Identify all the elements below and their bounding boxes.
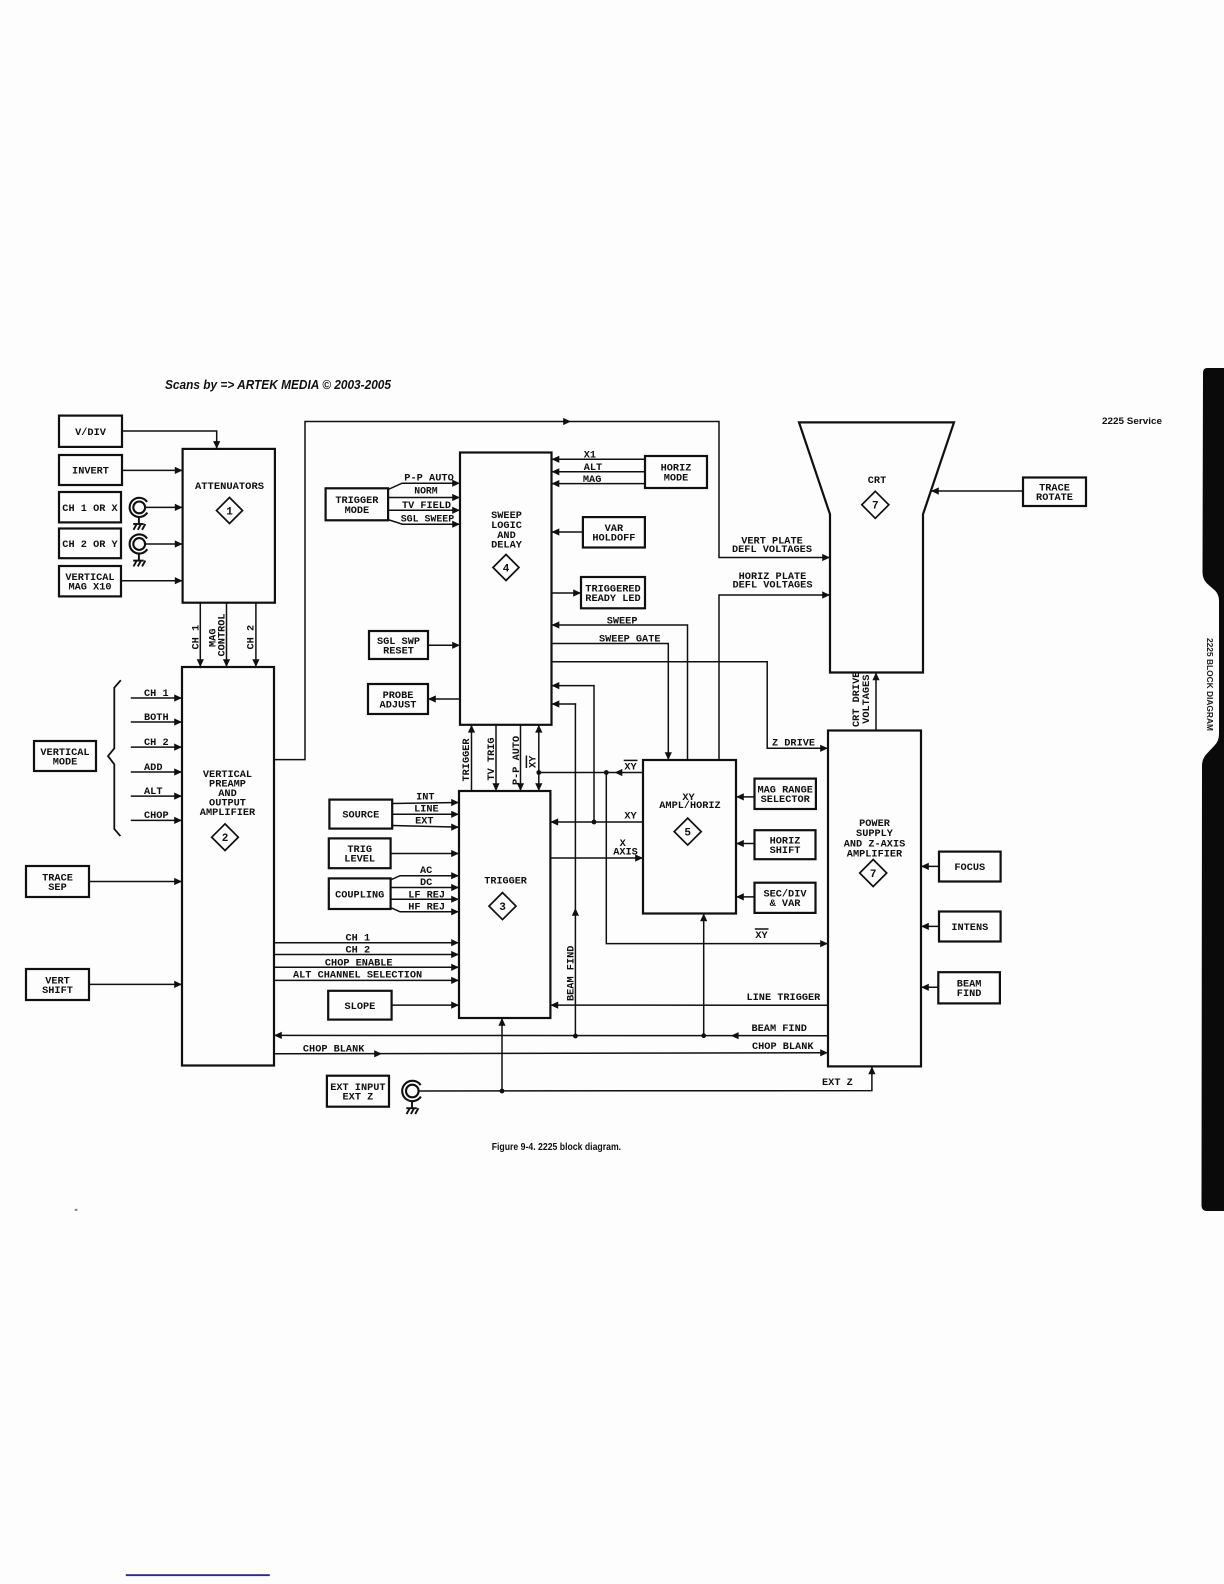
arrowhead CH 2 right bbox=[175, 540, 183, 547]
block VERTICAL MAG X10 control bbox=[59, 566, 121, 596]
svg-text:SLOPE: SLOPE bbox=[345, 1001, 376, 1013]
wire TV TRIG vertical bbox=[495, 725, 497, 790]
wire horiz shift to xy bbox=[738, 843, 755, 845]
block SEC/DIV & VAR control bbox=[755, 883, 816, 913]
block SWEEP LOGIC AND DELAY (4) bbox=[460, 453, 552, 725]
wire trace rotate line bbox=[933, 490, 1024, 492]
arrowhead XYbar right into power supply bbox=[820, 940, 828, 947]
arrowhead HF REJ right bbox=[451, 908, 459, 915]
svg-text:MODE: MODE bbox=[345, 505, 370, 517]
label CH 2 vertical bbox=[246, 625, 258, 650]
block EXT INPUT EXT Z input bbox=[327, 1076, 389, 1107]
arrowhead TV FIELD right bbox=[452, 507, 460, 514]
label XYbar near xy box bbox=[624, 760, 638, 773]
svg-text:TV TRIG: TV TRIG bbox=[486, 737, 498, 780]
arrowhead beam find up into xy bbox=[700, 914, 707, 922]
arrowhead beam find mid arrow up bbox=[572, 908, 579, 916]
diamond marker 3 trigger bbox=[489, 893, 516, 920]
wire probe adjust line bbox=[430, 698, 461, 700]
svg-text:BEAM FIND: BEAM FIND bbox=[752, 1023, 807, 1035]
connector EXT INPUT BNC bbox=[402, 1081, 421, 1101]
arrowhead XYbar down into trigger bbox=[535, 783, 542, 791]
wire var holdoff to sweep bbox=[553, 531, 583, 533]
wire sgl swp reset to sweep bbox=[428, 644, 459, 646]
arrowhead horiz shift left bbox=[736, 840, 744, 847]
svg-text:3: 3 bbox=[499, 902, 506, 914]
block HORIZ SHIFT control bbox=[755, 830, 816, 859]
arrowhead ALT CHANNEL SELECTION right bbox=[451, 977, 459, 984]
svg-text:READY LED: READY LED bbox=[585, 593, 640, 605]
svg-text:2225 BLOCK DIAGRAM: 2225 BLOCK DIAGRAM bbox=[1205, 638, 1215, 731]
wire SGL SWEEP line bbox=[388, 520, 458, 525]
wire X1 line bbox=[553, 458, 645, 460]
svg-text:SWEEP: SWEEP bbox=[607, 615, 638, 627]
block SGL SWP RESET control bbox=[369, 631, 428, 659]
arrowhead mode ADD right bbox=[174, 768, 182, 775]
diamond marker 7 power supply bbox=[860, 860, 887, 887]
diamond marker 2 preamp bbox=[212, 824, 239, 851]
wire P-P AUTO line bbox=[388, 483, 458, 489]
block POWER SUPPLY AND Z-AXIS AMPLIFIER (7) bbox=[828, 731, 921, 1067]
svg-text:FIND: FIND bbox=[957, 988, 982, 1000]
right edge black tab bbox=[1202, 368, 1224, 1211]
arrowhead MAG left bbox=[552, 480, 560, 487]
svg-text:XY: XY bbox=[624, 761, 637, 773]
small speck bbox=[75, 1209, 78, 1211]
wire BEAM FIND vertical riser bbox=[574, 704, 576, 1036]
svg-text:SOURCE: SOURCE bbox=[342, 810, 379, 822]
block SLOPE control bbox=[328, 991, 391, 1020]
block XY AMPL/HORIZ (5) bbox=[643, 760, 736, 914]
block TRACE SEP control bbox=[26, 866, 89, 897]
svg-text:LINE TRIGGER: LINE TRIGGER bbox=[747, 992, 822, 1004]
svg-text:DELAY: DELAY bbox=[491, 540, 523, 552]
svg-text:P-P AUTO: P-P AUTO bbox=[404, 472, 454, 484]
label TRIGGER vertical bbox=[461, 738, 473, 782]
wire CH 2 to trigger bbox=[274, 954, 458, 956]
arrowhead beam find left into preamp bbox=[274, 1032, 282, 1039]
wire INVERT to attenuators bbox=[122, 469, 181, 471]
label P-P AUTO vertical bbox=[511, 736, 523, 785]
svg-text:CHOP BLANK: CHOP BLANK bbox=[303, 1043, 365, 1055]
label CH 1 vertical bbox=[190, 625, 202, 650]
wire CH 2 attenuator output bbox=[255, 603, 257, 666]
arrowhead CH 1 trig right bbox=[451, 939, 459, 946]
block COUPLING control bbox=[329, 878, 391, 909]
wire vert shift to preamp bbox=[89, 983, 181, 985]
svg-text:CONTROL: CONTROL bbox=[217, 613, 229, 656]
arrowhead beam find control left bbox=[921, 984, 929, 991]
wire TRIGGER vertical bbox=[471, 727, 473, 792]
svg-text:FOCUS: FOCUS bbox=[954, 862, 985, 874]
svg-text:TRIGGER: TRIGGER bbox=[484, 876, 527, 888]
wire MAG line bbox=[553, 483, 645, 485]
arrowhead MAG CONTROL into preamp bbox=[223, 659, 230, 667]
block CRT (7) funnel bbox=[799, 422, 954, 672]
block ATTENUATORS (1) bbox=[183, 449, 275, 603]
arrowhead focus left bbox=[921, 863, 929, 870]
wire mode ADD bbox=[132, 771, 181, 773]
svg-text:Figure 9-4. 2225 block diagram: Figure 9-4. 2225 block diagram. bbox=[492, 1142, 622, 1153]
svg-text:CH 1: CH 1 bbox=[190, 625, 202, 650]
svg-text:AMPLIFIER: AMPLIFIER bbox=[847, 849, 903, 861]
svg-text:DEFL VOLTAGES: DEFL VOLTAGES bbox=[733, 580, 813, 592]
wire XY branch to sweep bbox=[553, 686, 594, 822]
svg-text:ATTENUATORS: ATTENUATORS bbox=[195, 481, 264, 493]
wire CH 1 BNC to attenuators bbox=[145, 506, 181, 508]
wire EXT Z line bbox=[419, 1068, 872, 1091]
wire beam find control line bbox=[923, 986, 939, 988]
svg-text:MAG: MAG bbox=[583, 474, 602, 486]
arrowhead EXT right bbox=[451, 824, 459, 831]
wire SWEEP GATE line bbox=[552, 644, 669, 759]
wire vert plate defl line bbox=[274, 422, 829, 760]
arrowhead INT right bbox=[451, 799, 459, 806]
arrowhead AC right bbox=[451, 872, 459, 879]
svg-text:ROTATE: ROTATE bbox=[1036, 492, 1073, 504]
block INVERT control bbox=[59, 455, 122, 485]
diamond marker 4 sweep bbox=[493, 555, 519, 581]
arrowhead LINE right bbox=[451, 811, 459, 818]
svg-text:CH 2 OR Y: CH 2 OR Y bbox=[62, 539, 118, 551]
svg-text:SEP: SEP bbox=[48, 882, 67, 894]
svg-text:CH 2: CH 2 bbox=[346, 945, 371, 957]
block CH 2 OR Y input bbox=[59, 529, 121, 559]
svg-text:TRIGGER: TRIGGER bbox=[461, 738, 473, 782]
svg-text:SWEEP GATE: SWEEP GATE bbox=[599, 633, 661, 645]
label TV TRIG vertical bbox=[486, 737, 498, 780]
wire VERTICAL MAG to attenuators bbox=[121, 580, 181, 582]
wire BEAM FIND vertical bbox=[553, 703, 575, 705]
svg-text:CHOP ENABLE: CHOP ENABLE bbox=[325, 957, 393, 969]
wire Z DRIVE line bbox=[552, 662, 827, 749]
svg-text:SHIFT: SHIFT bbox=[770, 845, 801, 857]
arrowhead XYbar up into sweep bbox=[535, 725, 542, 733]
arrowhead LF REJ right bbox=[451, 896, 459, 903]
wire mode CH 1 bbox=[132, 697, 181, 699]
wire ALT CHANNEL SELECTION to trigger bbox=[274, 979, 458, 981]
arrowhead INVERT right bbox=[175, 467, 183, 474]
ground EXT INPUT ground bbox=[406, 1101, 418, 1114]
svg-text:2225 Service: 2225 Service bbox=[1102, 416, 1162, 427]
wire crt drive line bbox=[875, 674, 877, 731]
svg-text:SELECTOR: SELECTOR bbox=[761, 794, 811, 806]
svg-text:INT: INT bbox=[416, 792, 435, 804]
junction XY branch junction bbox=[592, 820, 597, 825]
label XYbar vertical bbox=[526, 755, 539, 768]
svg-text:& VAR: & VAR bbox=[770, 898, 802, 910]
arrowhead XY branch left into sweep bbox=[552, 682, 560, 689]
wire TV FIELD line bbox=[388, 509, 458, 511]
wire XY line bbox=[552, 821, 643, 823]
block VAR HOLDOFF control bbox=[583, 517, 645, 547]
svg-text:HF REJ: HF REJ bbox=[408, 901, 445, 913]
brace vertical mode bbox=[108, 680, 121, 836]
wire MAG CONTROL line bbox=[226, 603, 228, 666]
svg-text:X1: X1 bbox=[584, 450, 596, 462]
wire XYbar to power supply bbox=[606, 773, 826, 944]
arrowhead mag range left bbox=[736, 793, 744, 800]
arrowhead chop blank right into power supply bbox=[820, 1049, 828, 1056]
wire triggered ready led line bbox=[552, 592, 580, 594]
diamond marker 5 xy ampl bbox=[674, 818, 701, 845]
wire BEAM FIND horizontal bbox=[276, 1034, 829, 1036]
arrowhead Z DRIVE right into power supply bbox=[820, 745, 828, 752]
wire XYbar vertical bbox=[538, 727, 540, 790]
arrowhead triggered ready led right bbox=[573, 589, 581, 596]
wire sec div to xy bbox=[738, 896, 755, 898]
arrowhead horiz plate right into crt bbox=[822, 591, 830, 598]
arrowhead TRIGGER up into sweep bbox=[468, 725, 475, 733]
connector CH 2 BNC bbox=[130, 534, 148, 553]
junction ext z riser junction bbox=[500, 1089, 505, 1094]
svg-text:AMPL/HORIZ: AMPL/HORIZ bbox=[659, 800, 720, 812]
wire CH 1 to trigger bbox=[274, 942, 458, 944]
ground CH 2 ground bbox=[133, 554, 145, 567]
arrowhead SGL SWEEP right bbox=[452, 521, 460, 528]
arrowhead NORM right bbox=[452, 494, 460, 501]
wire LINE TRIGGER line bbox=[552, 1004, 828, 1006]
wire slope line bbox=[392, 1004, 458, 1006]
svg-text:MAG X10: MAG X10 bbox=[68, 582, 111, 594]
svg-text:SHIFT: SHIFT bbox=[42, 985, 73, 997]
svg-text:CH 2: CH 2 bbox=[246, 625, 258, 650]
arrowhead X AXIS right into xy ampl bbox=[635, 854, 643, 861]
label CRT DRIVE VOLTAGES bbox=[851, 672, 873, 727]
svg-text:P-P AUTO: P-P AUTO bbox=[511, 736, 523, 785]
arrowhead CH 2 into preamp bbox=[252, 659, 259, 667]
svg-text:ALT: ALT bbox=[584, 462, 603, 474]
block HORIZ MODE control bbox=[645, 456, 707, 488]
arrowhead XY left into trigger bbox=[550, 818, 558, 825]
svg-text:XY: XY bbox=[624, 810, 637, 822]
svg-text:CH 1: CH 1 bbox=[144, 688, 169, 700]
block BEAM FIND control bbox=[938, 972, 1000, 1003]
arrowhead chop blank mid arrow bbox=[374, 1050, 382, 1057]
svg-text:CRT: CRT bbox=[868, 475, 887, 487]
svg-text:CH 1: CH 1 bbox=[346, 932, 371, 944]
wire INT line bbox=[392, 803, 457, 804]
wire mode BOTH bbox=[132, 721, 181, 723]
arrowhead P-P AUTO down into trigger bbox=[517, 783, 524, 791]
block SOURCE control bbox=[329, 800, 392, 829]
arrowhead intens left bbox=[921, 923, 929, 930]
arrowhead mode CHOP right bbox=[174, 817, 182, 824]
svg-text:CHOP: CHOP bbox=[144, 810, 169, 822]
wire DC line bbox=[391, 887, 458, 889]
wire V/DIV to attenuators bbox=[122, 431, 217, 448]
arrowhead V/DIV down bbox=[213, 441, 220, 449]
wire CHOP BLANK line bbox=[274, 1053, 827, 1054]
wire LINE line bbox=[392, 813, 457, 815]
block TRACE ROTATE control bbox=[1023, 478, 1086, 507]
arrowhead sgl swp reset right bbox=[452, 642, 460, 649]
svg-text:EXT: EXT bbox=[415, 816, 434, 828]
svg-text:ALT CHANNEL SELECTION: ALT CHANNEL SELECTION bbox=[293, 970, 422, 982]
arrowhead trace rotate left into crt bbox=[931, 487, 939, 494]
block INTENS control bbox=[939, 912, 1001, 942]
svg-text:7: 7 bbox=[872, 501, 879, 513]
arrowhead beam find left into sweep bbox=[552, 700, 560, 707]
arrowhead line trigger left into trigger bbox=[550, 1002, 558, 1009]
svg-text:1: 1 bbox=[226, 506, 233, 518]
junction XYbar at PS branch bbox=[604, 770, 609, 775]
wire mag range to xy bbox=[738, 796, 755, 798]
arrowhead probe adjust left bbox=[428, 695, 436, 702]
label XYbar at power supply bbox=[755, 929, 769, 942]
arrowhead CHOP ENABLE right bbox=[451, 964, 459, 971]
arrowhead TV TRIG down into trigger bbox=[492, 783, 499, 791]
block VERTICAL PREAMP AND OUTPUT AMPLIFIER (2) bbox=[182, 667, 274, 1066]
wire mode CHOP bbox=[132, 819, 181, 821]
svg-text:AMPLIFIER: AMPLIFIER bbox=[200, 807, 256, 819]
svg-text:7: 7 bbox=[870, 869, 877, 881]
wire intens line bbox=[923, 925, 940, 927]
arrowhead XYbar mid arrow left bbox=[615, 769, 623, 776]
wire NORM line bbox=[388, 497, 458, 499]
block MAG RANGE SELECTOR control bbox=[755, 779, 816, 809]
svg-text:HOLDOFF: HOLDOFF bbox=[592, 533, 635, 545]
arrowhead vert shift right bbox=[174, 981, 182, 988]
svg-text:V/DIV: V/DIV bbox=[75, 427, 107, 439]
svg-text:XY: XY bbox=[755, 930, 768, 942]
wire horiz plate defl line bbox=[719, 595, 829, 760]
svg-text:LEVEL: LEVEL bbox=[344, 854, 375, 866]
svg-text:INVERT: INVERT bbox=[72, 466, 109, 478]
arrowhead ALT left bbox=[552, 468, 560, 475]
wire focus line bbox=[923, 865, 940, 867]
wire AC line bbox=[391, 876, 458, 880]
block VERTICAL MODE control bbox=[34, 741, 96, 771]
arrowhead mode BOTH right bbox=[174, 718, 182, 725]
svg-text:LF REJ: LF REJ bbox=[408, 889, 445, 901]
arrowhead X1 left bbox=[552, 456, 560, 463]
arrowhead mode ALT right bbox=[174, 793, 182, 800]
arrowhead vert plate mid arrow bbox=[563, 418, 571, 425]
wire SWEEP line bbox=[553, 625, 688, 759]
svg-text:CHOP BLANK: CHOP BLANK bbox=[752, 1041, 814, 1053]
svg-text:4: 4 bbox=[503, 563, 510, 575]
svg-text:DC: DC bbox=[420, 877, 432, 889]
label BEAM FIND vertical bbox=[565, 946, 577, 1001]
wire mode CH 2 bbox=[132, 746, 181, 748]
wire LF REJ line bbox=[391, 898, 458, 900]
svg-text:EXT Z: EXT Z bbox=[822, 1077, 853, 1089]
block VERT SHIFT control bbox=[26, 969, 89, 1000]
wire X AXIS line bbox=[550, 857, 641, 859]
svg-text:DEFL VOLTAGES: DEFL VOLTAGES bbox=[732, 544, 812, 556]
block CH 1 OR X input bbox=[59, 492, 121, 522]
svg-text:2: 2 bbox=[222, 833, 229, 845]
block PROBE ADJUST output bbox=[368, 684, 428, 714]
wire trigger bottom riser bbox=[501, 1020, 503, 1091]
block TRIGGER MODE control bbox=[326, 488, 389, 520]
arrowhead CH 2 trig right bbox=[451, 951, 459, 958]
wire trig level line bbox=[391, 853, 458, 855]
svg-text:Z DRIVE: Z DRIVE bbox=[772, 738, 815, 750]
arrowhead VERTICAL MAG right bbox=[175, 577, 183, 584]
svg-text:RESET: RESET bbox=[383, 645, 414, 657]
arrowhead ext z up into power supply bbox=[868, 1066, 875, 1074]
arrowhead vert plate right into crt bbox=[822, 554, 830, 561]
connector CH 1 BNC bbox=[130, 498, 148, 517]
svg-text:TV FIELD: TV FIELD bbox=[402, 500, 451, 512]
svg-text:ALT: ALT bbox=[144, 786, 163, 798]
svg-text:MODE: MODE bbox=[53, 756, 78, 768]
svg-text:INTENS: INTENS bbox=[951, 922, 988, 934]
arrowhead trace sep right bbox=[174, 878, 182, 885]
wire CH 1 attenuator output bbox=[199, 603, 201, 666]
arrowhead sec div left bbox=[736, 893, 744, 900]
svg-text:EXT Z: EXT Z bbox=[343, 1092, 374, 1104]
diamond marker 1 attenuators bbox=[217, 498, 243, 524]
ground CH 1 ground bbox=[133, 517, 145, 530]
block TRIG LEVEL control bbox=[329, 838, 391, 868]
block TRIGGER (3) bbox=[459, 791, 550, 1018]
svg-text:ADJUST: ADJUST bbox=[380, 699, 417, 711]
wire mode ALT bbox=[132, 795, 181, 797]
arrowhead mode CH 1 right bbox=[174, 694, 182, 701]
arrowhead var holdoff left bbox=[552, 528, 560, 535]
junction beam find xy junction bbox=[701, 1033, 706, 1038]
arrowhead P-P AUTO right bbox=[452, 480, 460, 487]
svg-text:COUPLING: COUPLING bbox=[335, 889, 384, 901]
svg-text:CH 2: CH 2 bbox=[144, 737, 169, 749]
wire XYbar horizontal bbox=[539, 772, 643, 774]
wire beam find xy riser bbox=[703, 915, 705, 1036]
arrowhead trig level right bbox=[451, 850, 459, 857]
arrowhead CH 1 into preamp bbox=[197, 659, 204, 667]
arrowhead DC right bbox=[451, 884, 459, 891]
arrowhead riser up into trigger bbox=[498, 1018, 505, 1026]
bottom blue line bbox=[126, 1574, 270, 1576]
wire ALT line bbox=[553, 471, 645, 473]
label MAG CONTROL vertical bbox=[207, 613, 228, 656]
arrowhead slope right bbox=[451, 1002, 459, 1009]
block FOCUS control bbox=[939, 852, 1001, 882]
block TRIGGERED READY LED indicator bbox=[581, 577, 645, 608]
wire P-P AUTO vertical bbox=[520, 725, 522, 790]
svg-text:BEAM FIND: BEAM FIND bbox=[565, 946, 577, 1001]
svg-text:XY: XY bbox=[527, 755, 539, 768]
svg-text:BOTH: BOTH bbox=[144, 712, 169, 724]
svg-text:SGL SWEEP: SGL SWEEP bbox=[401, 513, 455, 525]
svg-text:AC: AC bbox=[420, 865, 432, 877]
block V/DIV control bbox=[59, 416, 122, 447]
arrowhead crt drive up into crt bbox=[872, 673, 879, 681]
wire HF REJ line bbox=[391, 908, 458, 912]
arrowhead SWEEP left into sweep logic bbox=[552, 621, 560, 628]
svg-text:CH 1 OR X: CH 1 OR X bbox=[62, 503, 118, 515]
svg-text:VOLTAGES: VOLTAGES bbox=[861, 675, 873, 724]
wire trace sep to preamp bbox=[89, 881, 181, 883]
junction XYbar at vertical bbox=[536, 770, 541, 775]
svg-text:AXIS: AXIS bbox=[613, 847, 638, 859]
wire EXT line bbox=[392, 826, 457, 828]
junction beam find riser junction bbox=[573, 1034, 578, 1039]
svg-text:5: 5 bbox=[684, 827, 691, 839]
svg-text:NORM: NORM bbox=[414, 486, 438, 498]
arrowhead SWEEP GATE down into xy ampl bbox=[665, 752, 672, 760]
diamond marker 7 crt bbox=[862, 491, 889, 518]
arrowhead mode CH 2 right bbox=[174, 744, 182, 751]
wire CHOP ENABLE to trigger bbox=[274, 966, 458, 968]
arrowhead beam find mid arrow left bbox=[731, 1032, 739, 1039]
svg-text:Scans by => ARTEK MEDIA © 200: Scans by => ARTEK MEDIA © 2003-2005 bbox=[165, 377, 392, 392]
svg-text:LINE: LINE bbox=[414, 803, 439, 815]
svg-text:MODE: MODE bbox=[664, 473, 689, 485]
arrowhead CH 1 right bbox=[175, 504, 183, 511]
